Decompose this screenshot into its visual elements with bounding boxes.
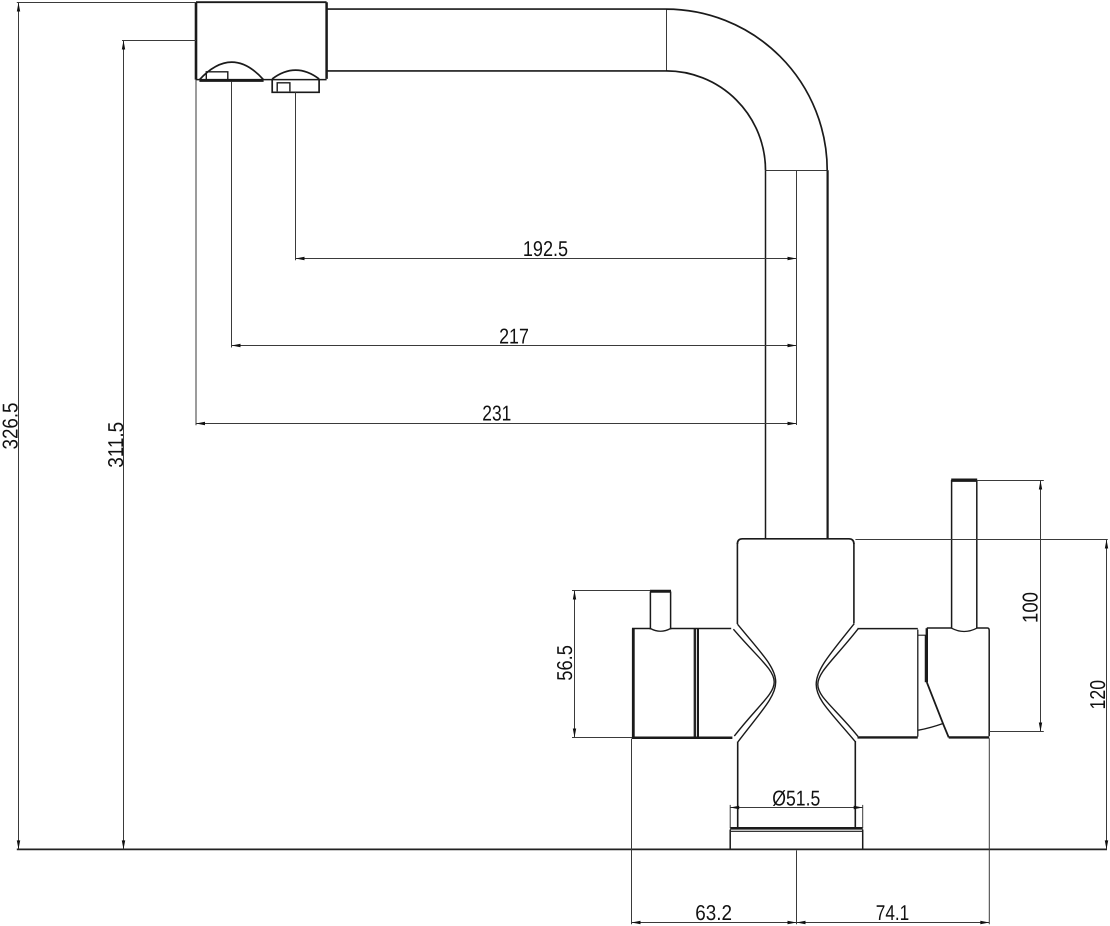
riser pipe centerline xyxy=(796,171,798,426)
svg-text:231: 231 xyxy=(482,402,511,426)
riser pipe left wall xyxy=(765,170,767,538)
svg-text:217: 217 xyxy=(499,324,529,348)
left handle joint double line xyxy=(695,629,697,738)
aerator right bump xyxy=(272,70,319,92)
right taper cone top edge xyxy=(858,628,918,630)
countertop line xyxy=(17,848,1107,850)
right handle housing xyxy=(927,628,989,737)
body right waist curve xyxy=(816,624,855,742)
dimension 120 xyxy=(855,540,1107,850)
spout head body xyxy=(196,2,327,79)
dimension 192.5 xyxy=(296,92,797,260)
elbow-pipe joint xyxy=(766,170,828,172)
dimension D51.5 xyxy=(730,805,863,828)
spout arm top edge xyxy=(327,8,666,10)
body left edge lower xyxy=(737,742,739,829)
escutcheon top tick xyxy=(918,634,926,636)
aerator left bump xyxy=(199,62,263,80)
body right edge lower xyxy=(854,741,856,828)
dimension 100 xyxy=(977,481,1044,732)
right lever rod xyxy=(951,480,977,632)
spout arm bottom edge xyxy=(327,70,666,72)
svg-text:326.5: 326.5 xyxy=(0,402,22,449)
svg-text:74.1: 74.1 xyxy=(876,901,910,925)
dimension 231 xyxy=(196,80,797,426)
arm-elbow joint xyxy=(666,9,668,71)
svg-text:120: 120 xyxy=(1086,680,1110,710)
escutcheon ring right line xyxy=(925,635,927,682)
body right edge upper xyxy=(853,543,855,623)
svg-text:63.2: 63.2 xyxy=(695,901,732,925)
dimension 326.5 xyxy=(17,3,196,850)
right taper cone bottom edge xyxy=(858,736,918,738)
riser pipe right wall xyxy=(826,170,828,538)
svg-text:Ø51.5: Ø51.5 xyxy=(772,786,820,810)
elbow inner arc xyxy=(666,71,766,170)
base flange xyxy=(730,828,863,849)
elbow outer arc xyxy=(666,9,827,170)
left handle stem xyxy=(650,591,671,631)
body left edge upper xyxy=(736,543,738,624)
dimension 311.5 xyxy=(122,41,196,850)
dimension 63.2 and 74.1 xyxy=(632,738,990,924)
body left waist curve xyxy=(738,624,776,742)
svg-text:56.5: 56.5 xyxy=(553,645,577,681)
dimension 217 xyxy=(232,82,797,348)
left handle body xyxy=(632,629,732,738)
svg-text:100: 100 xyxy=(1019,592,1043,623)
body top edge xyxy=(737,539,854,544)
svg-text:311.5: 311.5 xyxy=(104,422,128,468)
escutcheon ring left line xyxy=(917,630,919,737)
dimension 56.5 xyxy=(572,591,650,738)
svg-text:192.5: 192.5 xyxy=(523,237,568,261)
escutcheon bottom arc xyxy=(918,724,942,731)
